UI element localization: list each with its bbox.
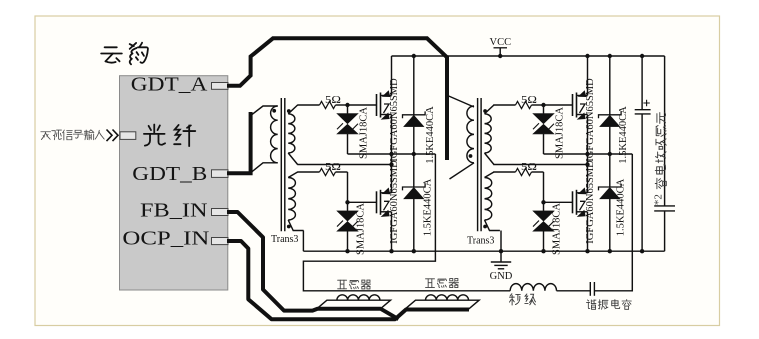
- resistor 5R Q4 (bridge2 bottom): [516, 168, 532, 175]
- svg-text:SMAJ18CA: SMAJ18CA: [552, 203, 563, 255]
- CT1 winding: [337, 295, 380, 300]
- wire bridge1 midpoint rail: [348, 153, 436, 155]
- junction Q1 (bridge1 top) emitter-midrail: [389, 152, 393, 156]
- wire to resonant cap: [557, 290, 591, 292]
- wire GND rail: [303, 250, 664, 252]
- current transformer CT1: [317, 300, 391, 309]
- wire Q4 (bridge2 bottom) gate feed: [493, 171, 515, 173]
- svg-text:GND: GND: [490, 271, 513, 282]
- svg-text:Trans3: Trans3: [467, 236, 494, 247]
- wire Q3 (bridge2 top) gate return: [493, 164, 587, 166]
- Trans3R primary polarity dot: [469, 154, 473, 158]
- label 灭弧信号输入: [41, 132, 51, 140]
- svg-text:Trans3: Trans3: [271, 234, 298, 245]
- Trans3L primary polarity dot: [272, 109, 276, 113]
- diode 1.5KE440CA Q2 (bridge1 bottom): [403, 184, 426, 191]
- wire Q2 (bridge1 bottom) jog to gate: [348, 172, 377, 202]
- TVS SMAJ18CA Q4 (bridge2 bottom): [543, 202, 545, 211]
- wire Q2 (bridge1 bottom) emitter to GND: [391, 212, 393, 251]
- junction Q3 (bridge2 top) gate node: [541, 103, 545, 107]
- capacitor resonant 谐振电容: [589, 282, 591, 296]
- plus mark C1: [643, 100, 649, 106]
- inductor primary 初级: [510, 284, 556, 291]
- svg-text:SMAJ18CA: SMAJ18CA: [359, 107, 370, 159]
- pin FB_IN: [212, 209, 229, 216]
- wire Q1 (bridge1 top) emitter down: [391, 115, 393, 194]
- wire thick OCP_IN cable: [227, 241, 469, 319]
- wire Q1 (bridge1 top) gate return: [297, 164, 391, 166]
- capacitor C1 electrolytic snubber: [641, 56, 643, 110]
- wire Q3 (bridge2 top) gate feed: [493, 104, 515, 106]
- junction Q3 (bridge2 top) emitter-midrail: [585, 152, 589, 156]
- svg-text:IGFGA60N65SMD: IGFGA60N65SMD: [389, 78, 400, 162]
- Trans3R secondary top winding: [485, 114, 492, 153]
- Trans3R secondary bottom winding: [485, 178, 492, 221]
- wire Q4 (bridge2 bottom) jog to gate: [544, 172, 573, 202]
- transformer Trans3L: [280, 98, 282, 231]
- pin OCP_IN: [212, 238, 229, 245]
- current transformer CT2: [406, 300, 480, 309]
- resistor 5R Q3 (bridge2 top): [516, 101, 532, 108]
- svg-text:VCC: VCC: [490, 37, 512, 48]
- label 谐振电容: [587, 300, 596, 310]
- diode 1.5KE440CA Q4 (bridge2 bottom): [599, 184, 622, 191]
- svg-text:*2: *2: [653, 194, 665, 205]
- TVS SMAJ18CA Q3 (bridge2 top): [543, 105, 545, 114]
- IGBT Q2 (bridge1 bottom): [376, 191, 378, 213]
- svg-text:FB_IN: FB_IN: [140, 200, 208, 222]
- wire thick GDT_B to Trans3L primary: [227, 112, 251, 173]
- label 云豹 (module name): [101, 47, 122, 62]
- svg-text:1.5KE440CA: 1.5KE440CA: [423, 178, 434, 236]
- wire Q1 (bridge1 top) gate feed: [297, 104, 319, 106]
- Trans3R secondary2 polarity dot: [483, 225, 487, 229]
- diode 1.5KE440CA Q3 (bridge2 top): [599, 111, 622, 118]
- wire output loop right: [594, 154, 632, 291]
- transformer Trans3R: [477, 98, 479, 231]
- junction VCC stub: [498, 54, 502, 58]
- IGBT Q1 (bridge1 top): [376, 94, 378, 116]
- label 互感器 (CT1): [338, 280, 347, 289]
- TVS SMAJ18CA Q2 (bridge1 bottom): [347, 202, 349, 211]
- Trans3L secondary bottom winding: [288, 178, 295, 221]
- wire Q1 (bridge1 top) to gate: [348, 104, 377, 106]
- junction Q1 (bridge1 top) gate node: [345, 103, 349, 107]
- IC block U1 (driver module): [120, 76, 228, 290]
- wire Trans3L return down: [302, 231, 304, 252]
- svg-text:SMAJ18CA: SMAJ18CA: [555, 107, 566, 159]
- Trans3R primary winding: [467, 106, 474, 163]
- IGBT Q4 (bridge2 bottom): [572, 191, 574, 213]
- svg-text:IGFGA60N65SMD: IGFGA60N65SMD: [389, 160, 400, 244]
- resistor 5R Q2 (bridge1 bottom): [320, 168, 336, 175]
- wire thick GDT_A to Trans3R primary: [227, 38, 447, 160]
- svg-text:1.5KE440CA: 1.5KE440CA: [616, 178, 627, 236]
- Trans3R secondary1 polarity dot: [483, 109, 487, 113]
- svg-text:SMAJ18CA: SMAJ18CA: [356, 203, 367, 255]
- wire Q3 (bridge2 top) to gate: [544, 104, 573, 106]
- Trans3L primary winding: [271, 106, 278, 163]
- junction Q1 (bridge1 top) gate return: [389, 162, 393, 166]
- resistor 5R Q1 (bridge1 top): [320, 101, 336, 108]
- wire output loop left: [303, 154, 510, 291]
- svg-text:GDT_A: GDT_A: [131, 74, 208, 96]
- svg-text:GDT_B: GDT_B: [132, 163, 207, 185]
- wire Q4 (bridge2 bottom) emitter to GND: [587, 212, 589, 251]
- IGBT Q3 (bridge2 top): [572, 94, 574, 116]
- wire Q3 (bridge2 top) collector to VCC: [587, 56, 589, 96]
- pin 光纤 (fiber input): [120, 132, 136, 140]
- capacitor C2 snubber: [664, 56, 666, 206]
- diode 1.5KE440CA Q1 (bridge1 top): [403, 111, 426, 118]
- wire Trans3R return down: [500, 231, 502, 252]
- ground GND symbol: [500, 251, 502, 262]
- wire bridge2 midpoint rail: [544, 153, 633, 155]
- svg-text:IGFGA60N65SMD: IGFGA60N65SMD: [585, 160, 596, 244]
- wire VCC rail: [392, 55, 665, 57]
- input chevron arrows: [107, 130, 119, 142]
- junction GND node: [499, 249, 503, 253]
- TVS SMAJ18CA Q1 (bridge1 top): [347, 105, 349, 114]
- pin GDT_B: [212, 170, 229, 178]
- svg-text:IGFGA60N65SMD: IGFGA60N65SMD: [585, 78, 596, 162]
- wire Q2 (bridge1 bottom) gate feed: [297, 171, 319, 173]
- Trans3L secondary top winding: [288, 114, 295, 153]
- wire thick FB_IN cable: [227, 212, 399, 319]
- Trans3L secondary1 polarity dot: [287, 109, 291, 113]
- junction Q3 (bridge2 top) gate return: [585, 162, 589, 166]
- svg-text:OCP_IN: OCP_IN: [122, 228, 209, 250]
- label 光纤: [144, 124, 165, 145]
- Trans3L secondary2 polarity dot: [287, 225, 291, 229]
- label 互感器 (CT2): [426, 279, 435, 288]
- junction Q2 (bridge1 bottom) gate node: [345, 200, 349, 204]
- wire Q1 (bridge1 top) collector to VCC: [391, 56, 393, 96]
- pin GDT_A: [212, 83, 229, 90]
- wire Q3 (bridge2 top) emitter down: [587, 115, 589, 194]
- junction Q4 (bridge2 bottom) gate node: [541, 200, 545, 204]
- svg-text:1.5KE440CA: 1.5KE440CA: [618, 106, 629, 164]
- CT2 winding: [426, 295, 469, 300]
- label 无感吸收电容*2 (rotated column): [657, 112, 666, 123]
- label 初级: [509, 294, 520, 305]
- svg-text:1.5KE440CA: 1.5KE440CA: [425, 106, 436, 164]
